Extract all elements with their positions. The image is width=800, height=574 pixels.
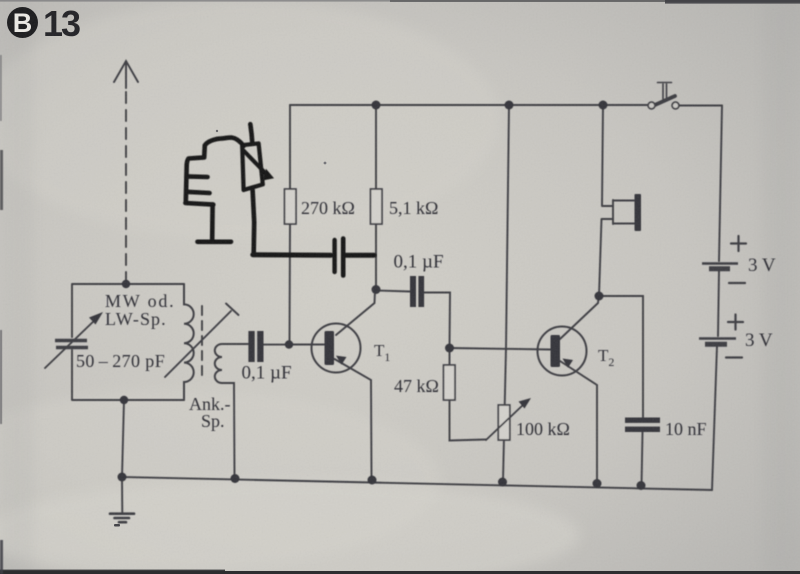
junction dot antenna	[122, 280, 130, 288]
coupling coil L2 Ank.-Sp.	[215, 344, 222, 383]
resistor R2 5.1k box	[371, 189, 383, 224]
hand ground bar	[198, 240, 232, 245]
switch actuator	[658, 83, 672, 100]
resistor R3 bottom lead to pot wiper	[450, 400, 487, 441]
wire base T2	[450, 348, 551, 350]
junction dot rail C	[599, 101, 608, 110]
capacitor C2 0.1uF plates	[248, 331, 254, 362]
junction dots bottom rail	[118, 473, 127, 482]
wire R2 bottom to C3	[376, 291, 410, 292]
ground bars	[110, 514, 134, 523]
T1 emitter wire	[335, 359, 372, 479]
hand ground stem	[210, 205, 215, 240]
arrowhead variable capacitor	[89, 312, 103, 325]
potentiometer branch line	[503, 105, 509, 481]
variable capacitor C1 plates	[55, 341, 88, 348]
T2 circle	[538, 327, 587, 376]
hand capacitor left plate	[332, 240, 336, 272]
tank circuit frame	[72, 284, 184, 400]
potentiometer R4 100k box	[498, 405, 510, 440]
coupling adjust arrow	[165, 304, 239, 378]
resistor R1 270k leads	[289, 105, 292, 345]
wire L2 top to C2	[222, 343, 248, 345]
transformer core dashed line	[201, 306, 203, 380]
wire C2 right to base junction	[264, 344, 290, 346]
hand coil outline	[186, 138, 244, 203]
wire ground stem	[121, 477, 123, 513]
hand component stem	[250, 124, 252, 143]
battery B2 plus sign	[728, 315, 743, 330]
resistor boxes	[285, 189, 510, 440]
hand wire to capacitor	[253, 252, 331, 257]
variable capacitor arrow	[45, 318, 97, 368]
hand wire capacitor right	[346, 253, 374, 258]
wire junction to R3 47k	[449, 348, 451, 365]
arrowhead potentiometer	[519, 398, 532, 409]
junction dot T2 base branch	[445, 344, 454, 353]
hand arrowhead	[262, 169, 274, 181]
earphone branch wires	[599, 105, 613, 296]
junction dot rail B	[505, 101, 514, 110]
junction dot rail A	[372, 101, 381, 110]
junction dot T1 base	[285, 340, 293, 348]
T2 emitter wire	[560, 361, 597, 483]
T1 base bar	[325, 331, 335, 365]
wire L2 bottom to rail	[222, 383, 235, 478]
hand wire down from box	[253, 190, 255, 253]
dust speck	[114, 524, 120, 527]
wire base T1	[289, 344, 324, 346]
hand capacitor right plate	[341, 239, 346, 276]
wire C4 bottom to rail	[642, 433, 643, 487]
battery B2 minus sign	[726, 356, 742, 358]
T2 emitter arrowhead	[563, 359, 574, 368]
coil L1 MW/LW	[184, 284, 194, 400]
T2 collector wire	[560, 296, 599, 339]
junction dot tank bottom	[120, 396, 128, 404]
T1 circle	[312, 324, 361, 373]
bottom edge line	[0, 571, 800, 574]
switch S1 lever	[652, 96, 676, 107]
battery B1 minus sign	[729, 282, 745, 284]
battery B1 plus sign	[731, 236, 746, 251]
hand arrow through box	[244, 151, 267, 175]
junction dot R2 bottom	[372, 285, 381, 294]
wire bottom rail	[122, 477, 712, 490]
battery B2 plates	[699, 337, 736, 340]
wire tank bottom to rail	[122, 400, 124, 477]
capacitor C4 10nF plates	[625, 418, 660, 423]
wire collector T2 to C4	[599, 296, 643, 417]
resistor R3 47k box	[444, 365, 456, 400]
top edge line	[0, 0, 800, 2]
antenna	[114, 61, 138, 282]
T1 emitter arrowhead	[336, 356, 347, 365]
junction dot T2 collector	[595, 292, 604, 301]
resistor R2 5.1k leads	[375, 105, 377, 289]
hand coil teeth	[185, 176, 213, 204]
badge circle B	[7, 7, 38, 38]
battery B1 plates	[702, 262, 738, 265]
B13 badge	[7, 3, 80, 44]
left edge marks	[0, 55, 2, 121]
earphone diaphragm bar	[635, 194, 642, 231]
resistor R1 270k box	[285, 189, 297, 224]
hand component box	[242, 143, 263, 190]
filled parts	[89, 101, 660, 491]
switch contact circles	[648, 102, 655, 109]
earphone body	[613, 200, 634, 224]
T1 collector wire	[336, 290, 375, 335]
capacitor C3 0.1uF plates	[410, 276, 416, 307]
potentiometer arrow	[486, 404, 524, 440]
T2 base bar	[551, 335, 561, 367]
wire C3 right to T2 base	[424, 293, 450, 349]
hand-drawn doodle group	[185, 124, 374, 275]
wire top rail	[290, 104, 722, 107]
wire right side battery branch	[712, 106, 722, 491]
